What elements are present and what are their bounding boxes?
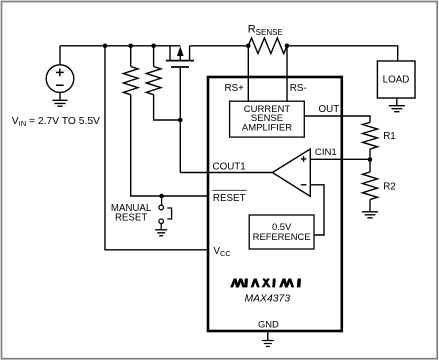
node rail pull-up2 junction bbox=[151, 44, 156, 49]
ground (under switch) bbox=[155, 230, 167, 236]
wire node to R2 bbox=[369, 160, 371, 173]
label MANUAL RESET bbox=[111, 203, 152, 223]
ground (under load) bbox=[389, 98, 405, 112]
node rail-VCC junction bbox=[103, 44, 108, 49]
svg-text:AMPLIFIER: AMPLIFIER bbox=[242, 122, 292, 133]
svg-text:OUT: OUT bbox=[319, 104, 340, 115]
svg-text:GND: GND bbox=[258, 318, 279, 329]
resistor pull-up 2 (gate) bbox=[146, 46, 161, 95]
label VIN = 2.7V TO 5.5V bbox=[12, 116, 100, 128]
resistor R2 bbox=[363, 172, 378, 200]
svg-text:R2: R2 bbox=[383, 182, 396, 193]
wire pull-up2 to gate line bbox=[154, 95, 181, 120]
svg-text:RESET: RESET bbox=[115, 213, 147, 224]
wire R2 to ground bbox=[369, 200, 371, 212]
wire switch to ground bbox=[160, 224, 162, 230]
wire source to rail bbox=[59, 46, 61, 65]
svg-text:COUT1: COUT1 bbox=[213, 162, 246, 173]
wire VCC rail down and to IC bbox=[105, 46, 208, 250]
node rail pull-up1 junction bbox=[128, 44, 133, 49]
IC U1 MAX4373 outline bbox=[208, 77, 342, 331]
reference block 0.5V bbox=[249, 215, 314, 249]
wire VIN rail bbox=[60, 45, 180, 47]
resistor RSENSE bbox=[248, 38, 287, 54]
ground (under IC) bbox=[262, 341, 274, 347]
pin label RESET (active low) bbox=[212, 190, 246, 204]
switch manual reset bbox=[159, 196, 172, 224]
svg-text:RESET: RESET bbox=[213, 193, 246, 204]
wire CIN1 bbox=[310, 158, 370, 160]
voltage source V1 bbox=[46, 65, 74, 93]
node R1/R2/CIN1 bbox=[368, 157, 373, 162]
ground (under source) bbox=[52, 92, 67, 106]
resistor R1 bbox=[363, 122, 378, 149]
node RSENSE right bbox=[285, 44, 290, 49]
wire GND pin bbox=[267, 331, 269, 340]
svg-text:R1: R1 bbox=[383, 131, 396, 142]
wire pull-up1 to RESET pin bbox=[131, 95, 208, 196]
wire R1 to node bbox=[369, 149, 371, 160]
current sense amplifier block bbox=[230, 101, 305, 137]
node RSENSE left bbox=[246, 44, 251, 49]
transistor Q1 P-channel MOSFET bbox=[166, 46, 194, 67]
comparator U1b bbox=[272, 149, 310, 196]
resistor pull-up 1 (RESET) bbox=[123, 46, 138, 95]
ground (under R2) bbox=[362, 212, 378, 218]
wire comparator minus to reference bbox=[310, 185, 324, 235]
logo MAXIM bbox=[230, 279, 301, 288]
wire RSENSE to load bbox=[287, 46, 398, 61]
svg-text:LOAD: LOAD bbox=[383, 74, 410, 85]
svg-text:REFERENCE: REFERENCE bbox=[253, 231, 311, 242]
node gate junction bbox=[178, 118, 183, 123]
wire RS- bbox=[286, 46, 288, 101]
svg-text:RS-: RS- bbox=[290, 83, 307, 94]
wire OUT to R1 bbox=[304, 116, 370, 122]
svg-text:MAX4373: MAX4373 bbox=[244, 294, 290, 305]
svg-text:RS+: RS+ bbox=[225, 83, 245, 94]
wire RS+ bbox=[247, 46, 249, 101]
wire drain rail to RSENSE bbox=[190, 45, 249, 47]
svg-text:CIN1: CIN1 bbox=[315, 147, 337, 158]
wire gate down bbox=[179, 67, 181, 173]
load box bbox=[377, 61, 415, 98]
node manual reset junction bbox=[159, 194, 164, 199]
wire COUT1 to comparator output bbox=[180, 172, 272, 174]
